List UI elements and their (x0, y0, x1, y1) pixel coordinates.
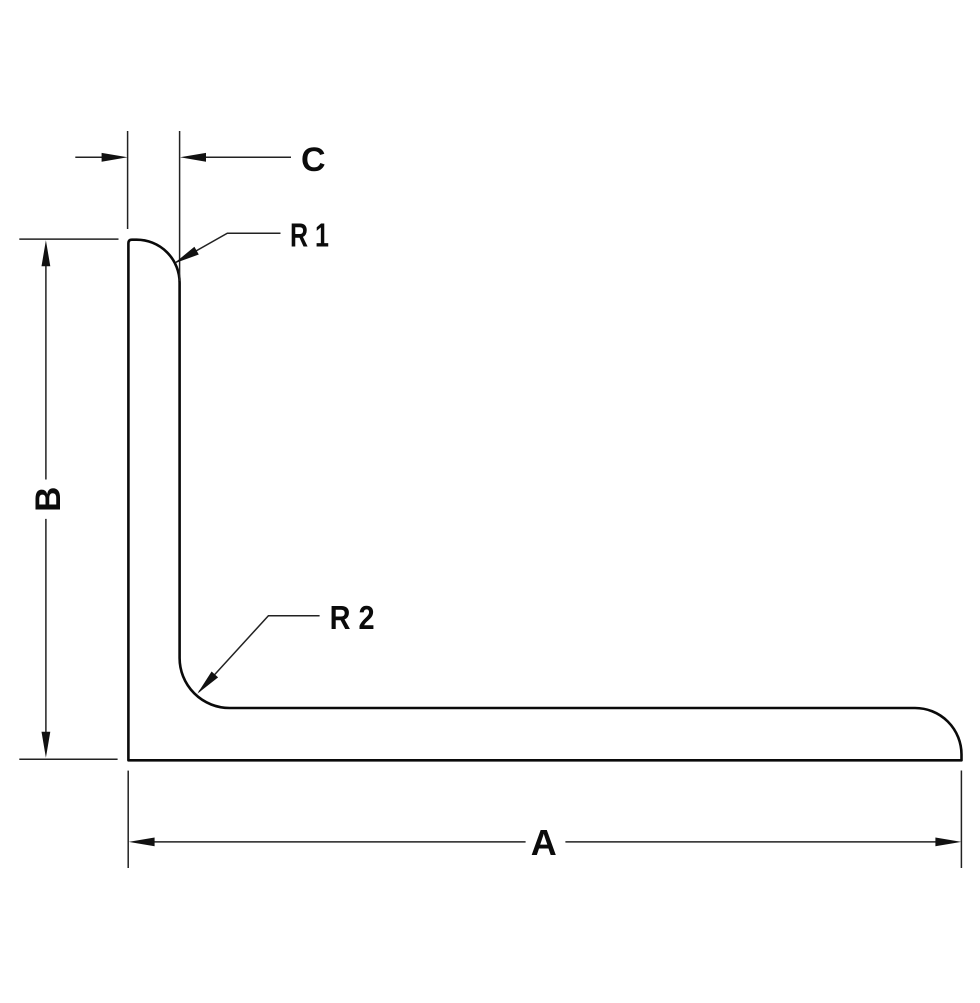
leader R2 (199, 616, 320, 692)
leader R1 (176, 233, 281, 262)
svg-text:R 1: R 1 (290, 216, 329, 253)
extension line B top (19, 238, 118, 240)
svg-text:A: A (531, 822, 557, 863)
dimension line B upper segment (45, 252, 47, 480)
angle profile outline (128, 240, 961, 761)
arrowhead R2 (197, 672, 218, 694)
svg-text:C: C (301, 141, 326, 179)
arrowhead A left (129, 838, 155, 847)
extension line A right (960, 771, 962, 869)
arrowhead B bottom (42, 732, 51, 758)
extension line B bottom (19, 758, 117, 760)
dimension line C left segment (75, 156, 112, 158)
extension line C left (127, 131, 129, 229)
arrowhead A right (935, 838, 961, 847)
dimension line A left segment (143, 841, 526, 843)
dimension line C right segment (196, 156, 291, 158)
arrowhead C right (180, 153, 206, 162)
svg-text:R 2: R 2 (330, 599, 375, 636)
arrowhead B top (42, 240, 51, 266)
arrowhead R1 (174, 247, 199, 264)
extension line C right (179, 131, 181, 281)
svg-text:B: B (29, 487, 68, 512)
extension line A left (127, 771, 129, 868)
arrowhead C left (102, 153, 128, 162)
dimension line A right segment (565, 841, 947, 843)
dimension line B lower segment (45, 519, 47, 746)
